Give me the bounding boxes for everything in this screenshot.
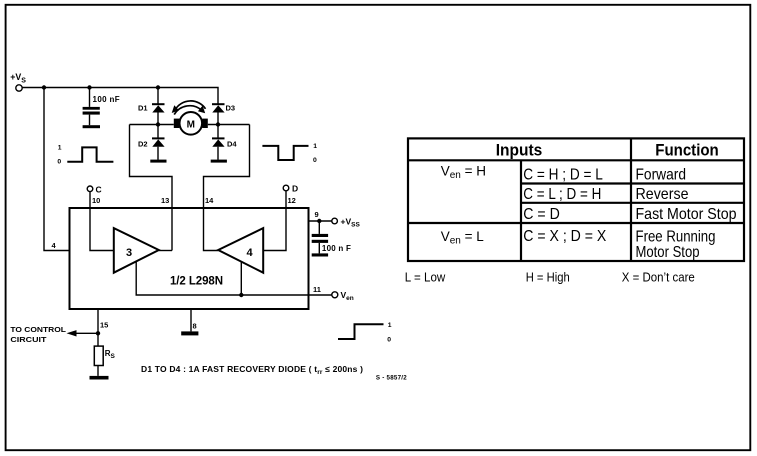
capacitor C2 100nF — [312, 221, 351, 253]
node junction at cap C1 — [87, 85, 91, 89]
wire right stepped to pin 14 — [204, 125, 250, 251]
table truth table frame — [408, 138, 744, 261]
terminal D input — [283, 184, 298, 194]
wire left stepped to pin 13 — [130, 125, 173, 251]
svg-text:0: 0 — [313, 157, 317, 164]
svg-text:1: 1 — [313, 143, 317, 150]
svg-text:Function: Function — [655, 142, 719, 160]
svg-text:M: M — [187, 120, 195, 131]
svg-text:10: 10 — [92, 196, 100, 205]
svg-text:D: D — [292, 184, 298, 194]
svg-text:Fast Motor Stop: Fast Motor Stop — [636, 206, 737, 223]
ground below RS — [90, 376, 109, 380]
node junction at x44 — [42, 85, 46, 89]
node junction at D1 top — [156, 85, 160, 89]
svg-text:C: C — [96, 185, 102, 195]
svg-text:15: 15 — [100, 321, 108, 330]
svg-text:1: 1 — [58, 145, 62, 152]
svg-text:11: 11 — [313, 285, 321, 294]
svg-text:Forward: Forward — [636, 166, 687, 183]
motor M — [174, 112, 208, 135]
wire pin 9 to Vss — [309, 220, 332, 222]
waveform input D pulse inverted — [262, 143, 317, 164]
ground below C1 — [83, 125, 100, 128]
node junction pin 9 — [317, 219, 321, 223]
table row separator 2 — [521, 202, 744, 204]
terminal +Vss — [332, 217, 361, 229]
wire arrow to control circuit — [67, 330, 99, 336]
svg-text:L = Low: L = Low — [405, 270, 446, 284]
ground pin 8 — [181, 331, 198, 335]
waveform Ven step — [338, 322, 392, 344]
waveform input C pulse — [57, 145, 113, 166]
terminal Ven — [332, 290, 354, 302]
table column divider inputs — [520, 160, 522, 261]
wire motor left node — [130, 124, 174, 126]
resistor RS — [94, 346, 115, 365]
wire top supply rail — [22, 88, 218, 104]
svg-text:C = X ; D = X: C = X ; D = X — [523, 228, 606, 245]
svg-text:D2: D2 — [138, 140, 148, 149]
wire D to amp 4 input — [263, 191, 286, 251]
wire pin 11 to Ven — [241, 294, 331, 296]
wire enable bus — [136, 262, 241, 296]
svg-text:9: 9 — [315, 210, 319, 219]
op-amp 4 — [218, 228, 263, 273]
svg-text:0: 0 — [387, 337, 391, 344]
svg-text:C = H ; D = L: C = H ; D = L — [523, 166, 603, 183]
table row separator 1 — [521, 182, 744, 184]
svg-text:13: 13 — [161, 196, 169, 205]
op-amp 3 — [114, 228, 159, 273]
svg-text:Free Running: Free Running — [636, 228, 716, 245]
svg-text:Ven = H: Ven = H — [441, 164, 486, 182]
table header separator — [408, 159, 744, 161]
diode D3 — [212, 104, 235, 125]
svg-text:4: 4 — [246, 247, 253, 259]
wire below RS — [97, 366, 99, 376]
svg-text:D4: D4 — [227, 140, 237, 149]
diode D1 — [138, 88, 165, 125]
svg-text:1: 1 — [388, 322, 392, 329]
table row separator 3 — [408, 222, 744, 224]
svg-text:Ven = L: Ven = L — [441, 229, 485, 247]
svg-text:S - 5857/2: S - 5857/2 — [376, 375, 407, 382]
svg-text:TO CONTROL: TO CONTROL — [10, 325, 66, 334]
IC U1 1/2 L298N box — [70, 208, 309, 309]
terminal C input — [87, 185, 101, 195]
svg-text:C = D: C = D — [523, 206, 560, 223]
wire amp 3 output to pin 13 — [159, 250, 172, 252]
ground below D2 — [150, 160, 166, 163]
wire pin 8 — [190, 309, 192, 331]
node junction pin 15 — [96, 331, 100, 335]
svg-text:CIRCUIT: CIRCUIT — [10, 335, 46, 344]
wire pin 15 — [97, 309, 99, 346]
svg-text:D1: D1 — [138, 104, 148, 113]
svg-text:8: 8 — [193, 322, 197, 331]
svg-text:100 n F: 100 n F — [322, 244, 351, 253]
svg-text:12: 12 — [288, 196, 296, 205]
node junction left of motor — [156, 122, 160, 126]
node junction enable — [239, 293, 243, 297]
svg-text:100 nF: 100 nF — [93, 95, 120, 104]
label to control circuit — [10, 325, 66, 344]
svg-text:Reverse: Reverse — [636, 186, 689, 203]
svg-text:Motor Stop: Motor Stop — [636, 244, 700, 261]
wire left branch to pin 4 — [44, 88, 70, 251]
capacitor C1 100nF — [83, 88, 120, 126]
svg-text:X = Don’t care: X = Don’t care — [622, 270, 695, 284]
svg-text:H = High: H = High — [526, 270, 570, 284]
wire motor right node — [208, 124, 250, 126]
svg-text:C = L ; D = H: C = L ; D = H — [523, 186, 601, 203]
svg-text:3: 3 — [126, 247, 132, 259]
node junction right of motor — [216, 122, 220, 126]
table column divider function — [630, 138, 632, 261]
svg-text:Inputs: Inputs — [496, 142, 543, 160]
ground below C2 — [312, 253, 328, 256]
svg-text:14: 14 — [205, 196, 214, 205]
rotation arrows above motor — [172, 101, 206, 115]
diode D2 — [138, 125, 165, 160]
wire C to amp 3 input — [90, 192, 114, 251]
terminal +Vs — [10, 72, 26, 91]
svg-text:D3: D3 — [226, 104, 236, 113]
svg-text:0: 0 — [57, 159, 61, 166]
svg-text:1/2 L298N: 1/2 L298N — [170, 276, 223, 288]
diode D4 — [212, 125, 237, 160]
ground below D4 — [211, 160, 227, 163]
